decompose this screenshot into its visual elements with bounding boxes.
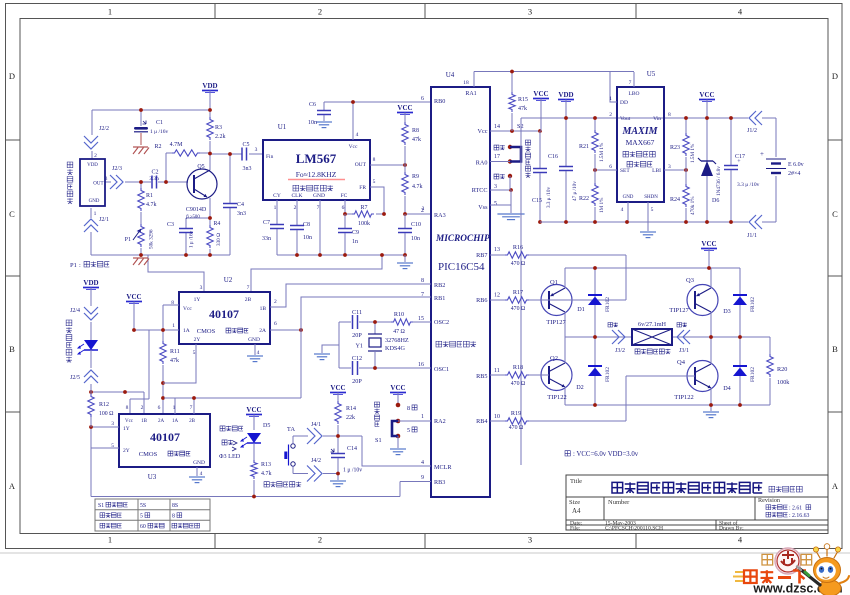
svg-text:5: 5: [407, 427, 410, 434]
svg-text:13: 13: [494, 247, 500, 253]
svg-text:U1: U1: [278, 123, 287, 131]
svg-text:Drawn By:: Drawn By:: [719, 526, 744, 532]
svg-text:FR102: FR102: [750, 367, 756, 382]
svg-text:R4: R4: [214, 221, 221, 227]
svg-text:D4: D4: [723, 385, 731, 392]
svg-text:MICROCHIP: MICROCHIP: [435, 234, 490, 244]
svg-text:16: 16: [418, 362, 424, 368]
svg-text:5S: 5S: [140, 503, 146, 509]
svg-text:18: 18: [463, 80, 469, 86]
svg-text:LM567: LM567: [296, 151, 337, 166]
svg-text:50k 3296: 50k 3296: [149, 229, 155, 249]
svg-text:40107: 40107: [150, 430, 180, 444]
svg-text:10n: 10n: [308, 120, 317, 126]
svg-text:4: 4: [257, 350, 260, 356]
svg-text:C1: C1: [156, 120, 163, 126]
svg-text:C15: C15: [532, 198, 542, 204]
svg-text:6: 6: [158, 405, 161, 411]
svg-text:PIC16C54: PIC16C54: [438, 261, 485, 273]
svg-text:VCC: VCC: [330, 384, 345, 392]
svg-text:A: A: [832, 481, 839, 491]
svg-text:4.7k: 4.7k: [412, 184, 423, 190]
svg-text:14: 14: [494, 124, 500, 130]
svg-text::: :: [79, 262, 81, 269]
svg-text:R12: R12: [99, 402, 109, 408]
svg-text:U4: U4: [446, 71, 455, 79]
svg-text:R15: R15: [518, 97, 528, 103]
svg-text:C11: C11: [352, 309, 362, 316]
svg-text:J3/1: J3/1: [679, 348, 689, 354]
svg-text:32768HZ: 32768HZ: [385, 337, 409, 344]
svg-text:4: 4: [200, 471, 203, 477]
svg-text:3.3 μ /10v: 3.3 μ /10v: [546, 187, 552, 208]
svg-text:J4/1: J4/1: [311, 422, 321, 428]
svg-text:C: C: [832, 209, 838, 219]
svg-text:OSC1: OSC1: [434, 366, 449, 373]
svg-text:Fo≈12.8KHZ: Fo≈12.8KHZ: [296, 170, 337, 179]
svg-text:J2/4: J2/4: [70, 308, 80, 314]
svg-text:3: 3: [255, 147, 258, 153]
svg-text:U5: U5: [647, 70, 656, 78]
svg-text:FR102: FR102: [750, 297, 756, 312]
svg-text:1: 1: [172, 323, 175, 329]
svg-text:2: 2: [141, 405, 144, 411]
svg-text:C2: C2: [151, 170, 158, 176]
svg-text:470 Ω: 470 Ω: [511, 306, 526, 312]
svg-text:A4: A4: [572, 507, 581, 515]
svg-text:FR102: FR102: [605, 297, 611, 312]
svg-text:100 Ω: 100 Ω: [99, 411, 114, 417]
svg-text:R19: R19: [511, 410, 521, 417]
svg-text:R21: R21: [579, 144, 589, 150]
svg-text:8: 8: [407, 405, 410, 412]
svg-text:+: +: [760, 150, 764, 158]
svg-text:D3: D3: [723, 308, 731, 315]
svg-text:Size: Size: [569, 499, 580, 506]
svg-text:File:: File:: [570, 526, 581, 532]
svg-text:2.2k: 2.2k: [215, 134, 226, 140]
svg-text:1: 1: [421, 414, 424, 420]
svg-text:TIP127: TIP127: [546, 319, 566, 326]
svg-text:8: 8: [668, 112, 671, 118]
svg-text:1: 1: [108, 535, 112, 545]
svg-text:3n3: 3n3: [243, 166, 252, 172]
svg-text:20P: 20P: [352, 332, 362, 339]
svg-text:R22: R22: [579, 196, 589, 202]
svg-text:VCC: VCC: [397, 104, 412, 112]
svg-text:J2/2: J2/2: [99, 126, 109, 132]
svg-text:FC: FC: [341, 193, 348, 199]
svg-text:8: 8: [126, 405, 129, 411]
svg-text:J1/1: J1/1: [747, 233, 757, 239]
svg-text:D6: D6: [712, 198, 719, 204]
svg-text:1.5M 1%: 1.5M 1%: [690, 143, 696, 163]
svg-text:TA: TA: [287, 426, 295, 433]
svg-text:47k: 47k: [518, 106, 527, 112]
svg-text:R11: R11: [170, 349, 180, 355]
svg-text:RB0: RB0: [434, 98, 445, 105]
svg-text:2: 2: [94, 153, 97, 159]
svg-text:47 Ω: 47 Ω: [393, 329, 405, 335]
svg-text:Vss: Vss: [478, 204, 488, 211]
svg-text:Vin: Vin: [653, 116, 661, 122]
svg-text:R23: R23: [670, 145, 680, 151]
svg-text:R14: R14: [346, 406, 356, 412]
svg-text:RTCC: RTCC: [472, 187, 488, 194]
svg-text:2: 2: [318, 535, 322, 545]
svg-text:100k: 100k: [777, 379, 790, 386]
svg-text:LBI: LBI: [652, 168, 661, 174]
svg-text:9: 9: [421, 475, 424, 481]
svg-text:R7: R7: [360, 205, 367, 211]
svg-text:R10: R10: [394, 311, 404, 318]
svg-text:7: 7: [190, 405, 193, 411]
svg-text:C:\PFCSCH\200110.SCH: C:\PFCSCH\200110.SCH: [605, 526, 663, 532]
svg-text:OUT: OUT: [355, 162, 367, 168]
svg-text:2: 2: [318, 7, 322, 17]
svg-text:1: 1: [609, 96, 612, 102]
svg-text:Y1: Y1: [355, 343, 363, 350]
svg-text:RB5: RB5: [476, 373, 487, 380]
svg-text:12: 12: [494, 293, 500, 299]
svg-text:J2/3: J2/3: [112, 166, 122, 172]
svg-text:5: 5: [140, 514, 143, 520]
svg-text:D: D: [832, 71, 838, 81]
svg-text:: VCC=6.0v VDD=3.0v: : VCC=6.0v VDD=3.0v: [573, 451, 639, 458]
svg-text:J2/1: J2/1: [99, 217, 109, 223]
svg-text:U3: U3: [148, 473, 157, 481]
svg-text:U2: U2: [224, 276, 233, 284]
svg-text:J1/2: J1/2: [747, 128, 757, 134]
svg-text:2: 2: [274, 299, 277, 305]
svg-text:5: 5: [494, 201, 497, 207]
svg-text:3.3n: 3.3n: [149, 176, 159, 182]
svg-text:S1: S1: [98, 503, 104, 509]
svg-text:C5: C5: [242, 142, 249, 148]
svg-text:Φ3 LED: Φ3 LED: [219, 453, 241, 460]
svg-text:5: 5: [193, 350, 196, 356]
svg-text:470 Ω: 470 Ω: [511, 261, 526, 267]
svg-text:RB6: RB6: [476, 297, 487, 304]
svg-text:3: 3: [200, 285, 203, 291]
svg-text:4.7k: 4.7k: [146, 202, 157, 208]
svg-text:GND: GND: [193, 460, 205, 466]
svg-text:2B: 2B: [189, 419, 196, 424]
svg-text:11: 11: [494, 368, 500, 374]
svg-text:C9014D: C9014D: [186, 207, 207, 213]
svg-text:RA0: RA0: [476, 160, 488, 167]
svg-text:CY: CY: [273, 193, 281, 199]
svg-text:S1: S1: [375, 437, 382, 444]
svg-text:1: 1: [274, 205, 277, 211]
svg-text:R3: R3: [215, 125, 222, 131]
svg-text:RB2: RB2: [434, 282, 445, 289]
svg-text:D2: D2: [576, 384, 584, 391]
svg-text:Vcc: Vcc: [183, 306, 192, 312]
svg-text:GND: GND: [313, 193, 325, 199]
svg-text:MAXIM: MAXIM: [621, 126, 658, 137]
svg-text:1B: 1B: [141, 419, 148, 424]
svg-text:S2: S2: [517, 123, 524, 130]
svg-text:VDD: VDD: [87, 163, 98, 168]
svg-text:330 Ω: 330 Ω: [216, 233, 222, 246]
svg-text:C9: C9: [352, 230, 359, 236]
svg-text:Vcc: Vcc: [125, 419, 134, 424]
svg-text:3: 3: [105, 176, 108, 182]
svg-text:4: 4: [421, 460, 424, 466]
svg-text:Q3: Q3: [686, 277, 694, 284]
svg-text:VCC: VCC: [126, 293, 141, 301]
svg-text:R2: R2: [154, 144, 161, 150]
svg-text:VCC: VCC: [246, 406, 261, 414]
svg-text:C8: C8: [303, 222, 310, 228]
svg-text:1Y: 1Y: [123, 426, 130, 432]
svg-text:4.7M: 4.7M: [170, 142, 184, 148]
svg-text:17: 17: [494, 154, 500, 160]
svg-text:: 2.16.63: : 2.16.63: [789, 513, 810, 519]
svg-text:CMOS: CMOS: [197, 328, 216, 335]
svg-text:1 μ /10v: 1 μ /10v: [343, 468, 362, 474]
svg-text:P1: P1: [70, 262, 77, 269]
svg-text:4: 4: [621, 207, 624, 213]
svg-text:RA1: RA1: [465, 91, 476, 97]
svg-text:1M 1%: 1M 1%: [599, 197, 605, 213]
svg-text:B: B: [9, 344, 15, 354]
svg-text:SHDN: SHDN: [644, 195, 658, 200]
svg-text:: 2.61: : 2.61: [789, 506, 802, 512]
svg-text:RB7: RB7: [476, 252, 487, 259]
svg-text:TIP122: TIP122: [547, 394, 567, 401]
svg-text:DD: DD: [620, 100, 628, 106]
svg-text:C3: C3: [167, 222, 174, 228]
svg-text:R18: R18: [513, 364, 523, 371]
svg-text:8S: 8S: [172, 503, 178, 509]
svg-text:VCC: VCC: [533, 90, 548, 98]
svg-text:47 μ /10v: 47 μ /10v: [572, 181, 578, 201]
svg-text:OUT: OUT: [93, 182, 103, 187]
svg-text:20P: 20P: [352, 378, 362, 385]
svg-text:R17: R17: [513, 289, 523, 296]
svg-text:VDD: VDD: [83, 279, 98, 287]
svg-text:6v/27.1mH: 6v/27.1mH: [638, 321, 667, 328]
svg-text:4.7k: 4.7k: [261, 471, 272, 477]
svg-text:1B: 1B: [260, 306, 267, 312]
svg-text:7: 7: [629, 80, 632, 86]
svg-text:C16: C16: [548, 154, 558, 160]
svg-text:1.5M 1%: 1.5M 1%: [599, 142, 605, 162]
svg-text:4: 4: [356, 132, 359, 138]
svg-text:1 μ /16v: 1 μ /16v: [150, 129, 168, 135]
svg-text:Fin: Fin: [266, 154, 274, 160]
svg-text:RB4: RB4: [476, 418, 487, 425]
svg-text:1A: 1A: [172, 419, 179, 424]
svg-text:C10: C10: [411, 222, 421, 228]
svg-text:8: 8: [373, 157, 376, 163]
svg-text:2: 2: [421, 208, 424, 214]
svg-text:470 Ω: 470 Ω: [509, 425, 524, 431]
svg-text:OSC2: OSC2: [434, 319, 449, 326]
svg-text:SET: SET: [620, 168, 630, 174]
svg-text:7: 7: [317, 205, 320, 211]
svg-text:3: 3: [494, 184, 497, 190]
svg-text:C7: C7: [263, 220, 270, 226]
svg-text:C: C: [9, 209, 15, 219]
svg-text:D5: D5: [263, 423, 270, 429]
svg-text:6: 6: [421, 96, 424, 102]
svg-text:2: 2: [294, 205, 297, 211]
svg-text:1: 1: [94, 211, 97, 217]
svg-text:C6: C6: [309, 102, 316, 108]
svg-text:60: 60: [140, 524, 146, 530]
svg-text:E 6.0v: E 6.0v: [788, 162, 804, 168]
svg-text:10: 10: [494, 414, 500, 420]
svg-text:33n: 33n: [262, 236, 271, 242]
svg-text:J4/2: J4/2: [311, 458, 321, 464]
svg-text:8: 8: [421, 278, 424, 284]
svg-text:TIP122: TIP122: [674, 394, 694, 401]
svg-text:Revision: Revision: [758, 497, 780, 504]
svg-text:22k: 22k: [346, 415, 355, 421]
svg-text:5: 5: [651, 207, 654, 213]
svg-text:2Y: 2Y: [123, 448, 130, 454]
svg-text:MCLR: MCLR: [434, 464, 452, 471]
svg-text:1N4736 / 6.8v: 1N4736 / 6.8v: [716, 166, 722, 196]
svg-text:100k: 100k: [358, 221, 370, 227]
svg-text:VDD: VDD: [558, 91, 573, 99]
svg-text:6: 6: [274, 321, 277, 327]
svg-text:3n3: 3n3: [237, 211, 246, 217]
svg-text:Q4: Q4: [677, 359, 686, 366]
svg-text:3: 3: [668, 164, 671, 170]
svg-text:D: D: [9, 71, 15, 81]
svg-text:CLK: CLK: [292, 193, 303, 199]
svg-text:3.3 μ /10v: 3.3 μ /10v: [737, 182, 760, 188]
svg-text:47k: 47k: [412, 137, 421, 143]
svg-text:10n: 10n: [411, 236, 420, 242]
svg-text:J3/2: J3/2: [615, 348, 625, 354]
svg-text:6: 6: [342, 205, 345, 211]
svg-text:Vcc: Vcc: [478, 128, 488, 135]
svg-text:R9: R9: [412, 174, 419, 180]
svg-text:8: 8: [172, 514, 175, 520]
svg-text:2Y: 2Y: [194, 337, 201, 343]
svg-text:GND: GND: [248, 337, 260, 343]
svg-text:5: 5: [373, 179, 376, 185]
svg-text:A: A: [9, 481, 16, 491]
svg-text:C14: C14: [347, 446, 357, 452]
svg-text:VCC: VCC: [699, 91, 714, 99]
svg-text:1 μ /16v: 1 μ /16v: [189, 230, 195, 248]
svg-text:15: 15: [418, 316, 424, 322]
svg-text:2B: 2B: [245, 297, 252, 303]
svg-text:MAX667: MAX667: [626, 138, 655, 147]
svg-text:GND: GND: [623, 195, 634, 200]
svg-text:6: 6: [609, 164, 612, 170]
svg-text:VDD: VDD: [202, 82, 217, 90]
svg-text:3: 3: [111, 421, 114, 427]
svg-text:R13: R13: [261, 462, 271, 468]
svg-text:3: 3: [528, 535, 532, 545]
svg-text:Q1: Q1: [550, 279, 558, 286]
svg-text:RB1: RB1: [434, 295, 445, 302]
svg-text:TIP127: TIP127: [669, 307, 689, 314]
svg-text:KDS4G: KDS4G: [385, 345, 405, 352]
svg-text:470 Ω: 470 Ω: [511, 381, 526, 387]
svg-text:3: 3: [528, 7, 532, 17]
svg-text:CMOS: CMOS: [139, 451, 158, 458]
svg-text:FR: FR: [359, 185, 366, 191]
svg-text:LBO: LBO: [629, 91, 640, 97]
svg-text:2A: 2A: [259, 328, 266, 334]
svg-text:C4: C4: [237, 202, 244, 208]
svg-text:J2/5: J2/5: [70, 375, 80, 381]
svg-text:7: 7: [247, 285, 250, 291]
svg-text:47k: 47k: [170, 358, 179, 364]
svg-text:P1: P1: [125, 237, 131, 243]
svg-text:B: B: [832, 344, 838, 354]
svg-text:RA3: RA3: [434, 212, 446, 219]
svg-text:R8: R8: [412, 128, 419, 134]
svg-text:470k 1%: 470k 1%: [690, 196, 696, 215]
svg-text:40107: 40107: [209, 307, 239, 321]
svg-text:Vcc: Vcc: [349, 144, 358, 150]
svg-text:Vout: Vout: [620, 116, 631, 122]
svg-text:R24: R24: [670, 197, 680, 203]
svg-text:RA2: RA2: [434, 418, 446, 425]
svg-text:Title: Title: [570, 478, 582, 485]
svg-text:VCC: VCC: [390, 384, 405, 392]
svg-text:R1: R1: [146, 193, 153, 199]
svg-text:2#×4: 2#×4: [788, 171, 800, 177]
svg-text:1n: 1n: [352, 239, 358, 245]
svg-text:R16: R16: [513, 244, 523, 251]
svg-text:1: 1: [108, 7, 112, 17]
svg-text:RB3: RB3: [434, 479, 445, 486]
svg-text:β ≥500: β ≥500: [186, 215, 200, 220]
svg-text:Number: Number: [608, 499, 630, 506]
svg-text:1A: 1A: [183, 328, 190, 334]
svg-text:C12: C12: [352, 355, 362, 362]
svg-text:Q2: Q2: [550, 355, 558, 362]
svg-text:1Y: 1Y: [194, 297, 201, 303]
svg-text:2A: 2A: [158, 419, 165, 424]
svg-text:D1: D1: [577, 306, 585, 313]
svg-text:FR102: FR102: [605, 367, 611, 382]
svg-text:Q5: Q5: [197, 164, 204, 170]
svg-text:GND: GND: [89, 199, 100, 204]
svg-text:10n: 10n: [303, 235, 312, 241]
svg-text:2: 2: [609, 112, 612, 118]
svg-text:VCC: VCC: [701, 240, 716, 248]
svg-text:R20: R20: [777, 366, 787, 373]
